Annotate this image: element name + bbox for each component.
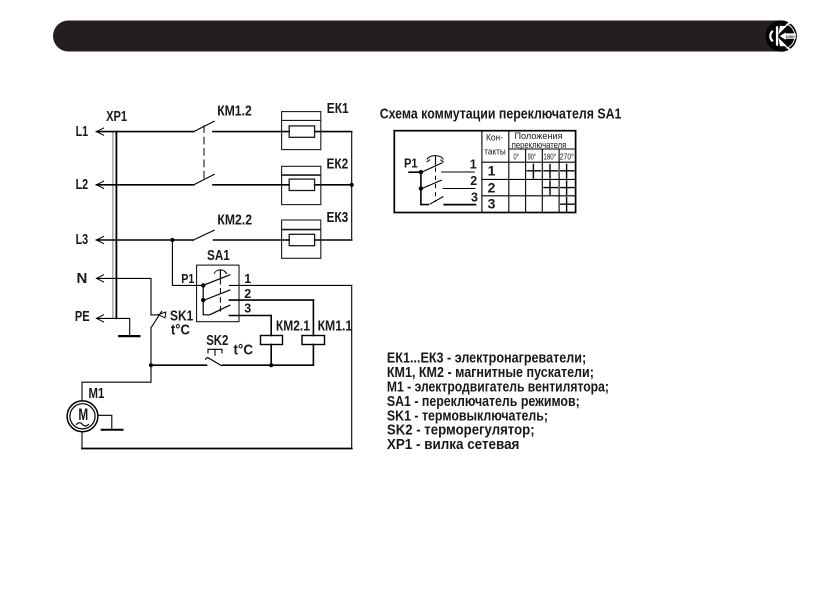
heater bus vertical — [351, 132, 353, 240]
switch SA1 blade 2 — [205, 290, 230, 300]
bottom return wire — [82, 448, 352, 450]
wire L3 tap to SA1 — [172, 240, 203, 285]
logo Kalibr — [766, 20, 797, 51]
junction EK2/bus — [350, 183, 354, 187]
heater EK1 body — [282, 112, 321, 150]
table divider contacts/positions — [508, 131, 510, 213]
P1 arc arrow left — [427, 160, 430, 163]
thermostat SK2 blade — [206, 358, 222, 366]
thermal switch SK1 symbol — [158, 312, 166, 318]
table column 270 — [558, 149, 560, 213]
P1 arc arrow right — [440, 160, 443, 163]
P1 handle arc — [427, 156, 444, 160]
heater EK3 body — [282, 220, 321, 258]
svg-text:КМ2.2: КМ2.2 — [217, 212, 252, 229]
contact KM1.2 blade (L2) — [194, 174, 214, 184]
svg-text:КМ1.2: КМ1.2 — [217, 103, 252, 120]
svg-text:1: 1 — [470, 157, 477, 171]
svg-text:2: 2 — [244, 287, 251, 301]
svg-text:ЕК2: ЕК2 — [327, 155, 349, 172]
thermostat SK2 symbol — [208, 349, 222, 355]
svg-text:2: 2 — [470, 174, 477, 188]
svg-text:ХР1 - вилка сетевая: ХР1 - вилка сетевая — [387, 436, 520, 453]
table row line 3 — [482, 195, 576, 197]
wire EK2 out — [315, 184, 352, 186]
heater EK3 element — [289, 234, 314, 245]
switch SA1 box — [197, 265, 239, 322]
svg-text:0°: 0° — [514, 151, 519, 161]
switch SA1 handle arrowhead — [224, 271, 226, 274]
svg-text:L3: L3 — [76, 231, 89, 248]
wire to motor branch — [82, 365, 151, 401]
mark row3 270 — [560, 197, 575, 212]
node N arrow — [97, 275, 104, 282]
plug XP1 pins — [112, 132, 114, 319]
P1 blade 2 — [422, 180, 442, 189]
svg-text:XP1: XP1 — [106, 108, 127, 125]
P1 blade 1 — [422, 163, 443, 172]
coil KM2.1 — [261, 336, 283, 345]
header bar — [53, 21, 768, 52]
contact SK1 fixed tick — [151, 314, 159, 316]
svg-text:М1: М1 — [89, 385, 105, 402]
switch SA1 handle stem — [219, 270, 221, 278]
wire L1 to EK1 — [213, 131, 289, 133]
svg-text:2: 2 — [488, 179, 496, 195]
junction SK1/bus — [149, 363, 153, 367]
P1 input stub — [408, 171, 421, 173]
wire L3 to EK3 — [214, 239, 290, 241]
motor M1 sine — [77, 423, 89, 426]
coil KM1.1 lead top — [312, 300, 314, 335]
junction SA1 in2 — [201, 298, 205, 302]
wire EK3 out — [315, 239, 352, 241]
junction dots — [149, 183, 354, 368]
table P1 switch picture — [408, 156, 476, 205]
junction SA1 in1 — [201, 283, 205, 287]
svg-text:t°C: t°C — [234, 342, 254, 359]
svg-text:Схема коммутации переключателя: Схема коммутации переключателя SA1 — [380, 106, 622, 123]
wire L1 left — [96, 131, 193, 133]
wire SA1 out1 — [229, 284, 351, 286]
wire L3 left — [96, 239, 193, 241]
svg-text:ЕК3: ЕК3 — [327, 209, 349, 226]
switch SA1 handle arc — [214, 270, 226, 273]
mechanical link KM1.2 dashed — [203, 126, 205, 178]
svg-text:L2: L2 — [76, 176, 89, 193]
P1 out line 3 — [443, 204, 476, 206]
contact KM1.2 blade (L1) — [194, 121, 214, 131]
svg-text:270°: 270° — [560, 151, 574, 161]
coil KM2.1 lead top — [270, 316, 272, 336]
wire EK1 out — [315, 131, 352, 133]
table header underline — [509, 148, 576, 150]
P1 common vertical — [421, 172, 429, 204]
P1 out line 2 — [443, 188, 476, 190]
node PE arrow — [97, 315, 104, 322]
switch SA1 link dashed — [219, 280, 221, 314]
node L2 arrow — [97, 181, 104, 188]
switch SA1 common vertical — [203, 285, 209, 314]
svg-text:1: 1 — [244, 272, 251, 286]
P1 dot 1 — [419, 170, 423, 174]
P1 out line 1 — [441, 171, 475, 173]
table divider picture/contacts — [481, 131, 483, 213]
mark row2 270 — [560, 180, 575, 195]
svg-text:такты: такты — [484, 146, 506, 157]
P1 link dashed — [435, 168, 437, 203]
heaters EK1..EK3 — [282, 112, 321, 259]
contact KM2.2 blade (L3) — [193, 230, 214, 240]
wire PE — [96, 318, 129, 336]
svg-text:ЕК1: ЕК1 — [327, 100, 349, 117]
mark row1 270 — [560, 164, 575, 179]
coil KM2.1 lead bottom — [270, 345, 272, 366]
svg-text:SA1: SA1 — [207, 247, 230, 264]
table row line 2 — [482, 178, 576, 180]
svg-text:3: 3 — [471, 191, 478, 205]
svg-text:P1: P1 — [181, 272, 194, 286]
switch SA1 blade 3 — [211, 305, 230, 314]
thermal switch SK1 blade — [151, 311, 162, 328]
mark row2 180 — [543, 180, 558, 195]
heater EK2 element — [289, 179, 314, 190]
heater EK1 element — [289, 126, 314, 137]
control bus right — [223, 364, 314, 366]
wire L2 left — [96, 184, 193, 186]
svg-text:1: 1 — [488, 163, 496, 179]
P1 dot 2 — [419, 186, 423, 190]
ground PE — [119, 335, 139, 337]
control bus left — [151, 364, 207, 366]
svg-text:180°: 180° — [543, 151, 556, 161]
wire SK1 to control bus — [150, 328, 152, 365]
coil KM1.1 lead bottom — [312, 345, 314, 366]
svg-text:L1: L1 — [76, 123, 89, 140]
heater EK2 body — [282, 166, 321, 204]
svg-text:М: М — [78, 405, 88, 424]
svg-text:3: 3 — [488, 196, 496, 212]
coil KM1.1 — [302, 336, 325, 345]
wire right vertical (out1 down) — [351, 285, 353, 448]
motor bottom lead — [81, 432, 83, 449]
motor right lead — [98, 415, 112, 430]
svg-text:КМ1.1: КМ1.1 — [318, 318, 353, 335]
wire L2 to EK2 — [213, 184, 289, 186]
svg-text:SK2: SK2 — [206, 332, 228, 349]
table column 90 — [525, 149, 527, 213]
P1 blade 3 — [430, 197, 444, 205]
svg-text:PE: PE — [75, 308, 90, 325]
wire SA1 out3 — [229, 315, 271, 317]
svg-text:КМ2.1: КМ2.1 — [276, 318, 310, 335]
wire N — [96, 278, 151, 315]
schematic labels — [75, 100, 352, 424]
switch SA1 blade 1 — [205, 275, 230, 285]
svg-text:3: 3 — [244, 302, 251, 316]
P1 handle stem — [435, 156, 437, 167]
svg-text:90°: 90° — [528, 151, 536, 161]
svg-text:P1: P1 — [404, 156, 418, 170]
node L3 arrow — [97, 236, 104, 243]
node L1 arrow — [97, 128, 104, 135]
junction KM2.1/bus — [269, 363, 273, 367]
svg-text:Кон-: Кон- — [486, 133, 503, 144]
ground motor — [102, 429, 123, 431]
table row line 1 — [482, 161, 576, 163]
mark row1 90 — [527, 164, 542, 179]
table texts — [484, 131, 566, 158]
svg-text:переключателя: переключателя — [512, 140, 567, 151]
svg-text:t°C: t°C — [171, 322, 190, 339]
junction L3/SA1 — [170, 238, 174, 242]
wire SA1 out2 — [229, 299, 313, 301]
motor M1 inner circle — [70, 404, 95, 429]
svg-text:N: N — [77, 270, 88, 287]
table column 180 — [541, 149, 543, 213]
mark row1 180 — [543, 164, 558, 179]
table outer border — [394, 131, 575, 213]
motor M1 outer circle — [67, 401, 98, 432]
